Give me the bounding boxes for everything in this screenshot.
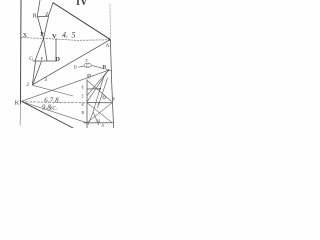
svg-text:F: F — [41, 56, 44, 61]
crossing line Z-P-G — [35, 17, 48, 61]
top bent line to R — [37, 0, 40, 16]
picture plane rail upper faint — [109, 4, 111, 40]
lower band X line 2 — [87, 103, 112, 123]
R hub ray to rail low — [87, 70, 108, 102]
bar R-Z — [37, 15, 48, 17]
small ellipse lens — [84, 63, 92, 67]
svg-text:IV: IV — [76, 0, 88, 8]
svg-text:Σ: Σ — [82, 95, 85, 99]
svg-text:B: B — [82, 111, 85, 115]
svg-text:D: D — [74, 65, 78, 70]
vertical V-D — [55, 39, 57, 61]
left rail faded bottom — [19, 104, 21, 125]
svg-text:Λ: Λ — [106, 43, 110, 49]
svg-text:E: E — [82, 86, 85, 90]
picture plane rail lower — [110, 40, 113, 128]
small line ellipse-R — [92, 66, 104, 69]
bar y89 with blob — [87, 88, 100, 90]
bar G-D — [33, 60, 57, 62]
svg-text:C: C — [86, 63, 89, 68]
right figure left rail — [86, 80, 88, 129]
line vertex to Z — [48, 3, 53, 16]
lambda shape left leg — [88, 112, 93, 125]
svg-text:X: X — [23, 33, 28, 39]
K dotted gentle ray — [22, 102, 87, 123]
svg-text:6.7.8.: 6.7.8. — [44, 97, 61, 104]
horizontal low right figure — [84, 122, 113, 124]
svg-text:5: 5 — [72, 31, 76, 40]
svg-text:E: E — [82, 103, 85, 107]
svg-text:C: C — [88, 75, 91, 80]
blob at end of bar — [99, 88, 101, 90]
K ray up to R hub — [22, 70, 109, 101]
steep diagonal b — [98, 78, 108, 108]
small line D-ellipse — [79, 66, 84, 67]
svg-text:D: D — [55, 56, 60, 63]
svg-text:x: x — [98, 101, 100, 106]
left vertical rail — [20, 0, 23, 104]
svg-text:V: V — [52, 33, 57, 40]
K dashed horizontal — [22, 102, 87, 103]
big diagonal to apex — [53, 3, 110, 40]
svg-text:G: G — [29, 56, 33, 62]
R hub ink dot — [108, 69, 110, 71]
svg-text:3: 3 — [44, 77, 47, 83]
line G to vertex 2 — [32, 61, 35, 84]
line F to vertex 2 — [33, 61, 42, 84]
steep diagonal a — [93, 76, 104, 112]
small circle o — [103, 96, 106, 99]
svg-text:R: R — [103, 65, 107, 70]
svg-text:2: 2 — [26, 82, 29, 88]
svg-text:P: P — [113, 97, 116, 102]
R tick to rail — [106, 70, 112, 71]
crossing line R-P-F — [38, 17, 47, 61]
diagonal rail-top to rail-right — [87, 81, 111, 102]
tiny circle top of right figure — [88, 74, 91, 77]
K steep ray — [22, 101, 73, 128]
svg-text:4.: 4. — [62, 30, 68, 39]
ray 2 down-right — [33, 85, 73, 96]
svg-text:H: H — [97, 119, 100, 124]
lower band X line 1 — [87, 103, 112, 123]
long line 2 to apex — [32, 40, 109, 85]
svg-text:K: K — [15, 100, 20, 106]
R hub ray to rail mid — [87, 70, 108, 95]
apex ink blob — [109, 39, 111, 41]
svg-text:R: R — [33, 13, 37, 19]
horizontal mid right figure — [87, 102, 112, 104]
svg-text:A: A — [101, 123, 105, 128]
svg-text:9.&c.: 9.&c. — [42, 105, 57, 112]
lambda shape right leg — [93, 112, 98, 125]
dashed horizon X-P-V — [21, 38, 109, 41]
